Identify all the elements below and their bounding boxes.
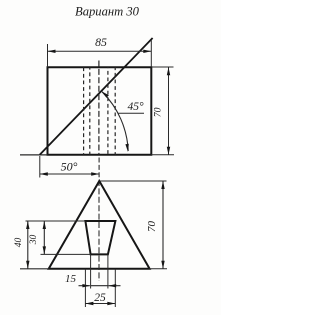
centerline front view xyxy=(98,183,100,281)
dim 70 (front view): top arrowhead xyxy=(161,181,164,189)
svg-text:85: 85 xyxy=(95,35,107,49)
dim 50: dimension line xyxy=(40,173,99,175)
hidden dashed edge line 3 xyxy=(107,67,109,154)
dim 70 (top view): top arrowhead xyxy=(167,67,170,75)
dim 85: extension line right xyxy=(150,40,152,67)
svg-text:40: 40 xyxy=(14,238,24,248)
dim 15: middle segment xyxy=(91,285,108,287)
dim 85: extension line left xyxy=(47,44,49,67)
svg-text:70: 70 xyxy=(146,221,158,233)
diagonal line (45 deg edge) xyxy=(40,38,153,155)
dim 40: bottom arrowhead xyxy=(26,261,29,269)
svg-text:30: 30 xyxy=(29,235,39,246)
dim 40: dimension line xyxy=(27,221,29,269)
svg-text:50°: 50° xyxy=(61,160,78,174)
ground line right extension xyxy=(151,154,174,156)
centerline top view xyxy=(98,61,100,155)
extension below base for 15 left xyxy=(90,254,92,288)
dim 70 (front view): bottom arrowhead xyxy=(161,261,164,269)
ground line left extension xyxy=(20,154,48,156)
dim 15: left outside arrow xyxy=(79,285,90,287)
dim 30: dimension line xyxy=(43,221,45,254)
base line left extension xyxy=(20,268,49,270)
top view: rectangle outline xyxy=(48,67,152,154)
dim 70 (top view): top extension xyxy=(151,66,173,68)
dim 30: bottom arrowhead xyxy=(43,246,46,254)
extension line at slot bottom to left xyxy=(41,253,91,255)
dim 25: left arrowhead xyxy=(85,302,93,305)
45 deg arc top arrowhead xyxy=(102,91,109,97)
dim 70 (top view): bottom arrowhead xyxy=(167,147,170,155)
centerline between views xyxy=(98,158,100,182)
extension below base for 15 right xyxy=(107,254,109,288)
dim 70 (top view): dimension line xyxy=(168,67,170,155)
svg-text:45°: 45° xyxy=(127,101,144,113)
dim 85: right arrowhead xyxy=(143,50,151,53)
svg-text:Вариант 30: Вариант 30 xyxy=(75,5,140,19)
hidden dashed edge line 4 xyxy=(114,67,116,154)
svg-text:15: 15 xyxy=(65,273,77,285)
dim 85: dimension line xyxy=(48,50,152,52)
front view: triangle outline xyxy=(49,181,150,269)
dim 50: left arrowhead xyxy=(40,172,48,175)
hidden dashed edge line 2 xyxy=(89,67,91,154)
base line right extension xyxy=(150,268,167,270)
45 deg leader arc with arrows xyxy=(102,92,128,151)
extension line at slot top to left xyxy=(26,220,86,222)
svg-text:25: 25 xyxy=(94,292,106,304)
dim 85: left arrowhead xyxy=(48,50,56,53)
dim 40: top arrowhead xyxy=(26,221,29,229)
45 deg arc bottom arrowhead xyxy=(125,144,128,152)
apex extension line to right xyxy=(99,180,166,182)
dim 50: extension line below diagonal base point xyxy=(39,156,41,178)
hidden dashed edge line 1 xyxy=(83,67,85,154)
extension below base for 25 left xyxy=(84,269,86,307)
45 label underline xyxy=(118,112,144,114)
dim 25: right arrowhead xyxy=(107,302,115,305)
svg-text:70: 70 xyxy=(152,107,163,117)
dim 25: dimension line xyxy=(85,303,115,305)
dim 30: top arrowhead xyxy=(43,221,46,229)
dim 70 (front view): dimension line xyxy=(162,181,164,269)
extension below base for 25 right xyxy=(114,269,116,307)
front view: slot trapezoid xyxy=(85,221,115,254)
dim 50: right arrowhead xyxy=(91,172,99,175)
dim 15: right outside arrow xyxy=(108,285,120,287)
